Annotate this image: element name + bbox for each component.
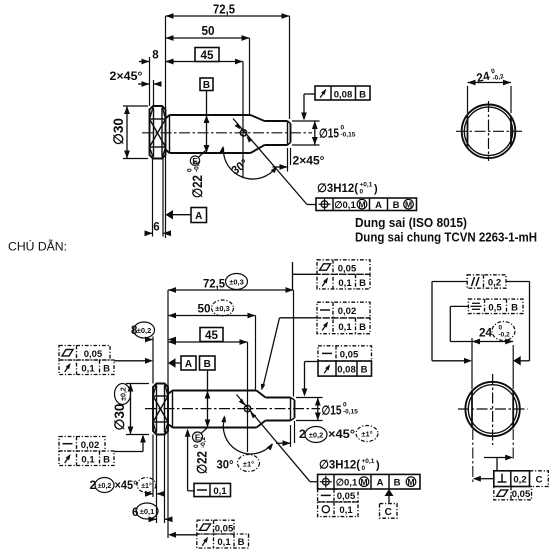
svg-text:30°: 30°	[217, 458, 234, 472]
svg-text:∅0,1: ∅0,1	[336, 478, 358, 489]
svg-text:A: A	[377, 478, 384, 489]
svg-text:0,1: 0,1	[338, 322, 352, 333]
svg-text:-0,15: -0,15	[341, 132, 356, 139]
svg-text:C: C	[385, 507, 392, 518]
svg-text:±1°: ±1°	[361, 430, 372, 439]
svg-text:B: B	[238, 537, 245, 548]
svg-text:B: B	[103, 364, 110, 375]
svg-text:72,5: 72,5	[203, 277, 225, 291]
svg-text:Dung sai (ISO 8015): Dung sai (ISO 8015)	[355, 215, 467, 230]
svg-text:B: B	[361, 365, 368, 376]
svg-text:∅15: ∅15	[322, 404, 342, 418]
svg-text:0,05: 0,05	[338, 263, 357, 274]
svg-text:0: 0	[187, 168, 194, 172]
svg-text:±0,3: ±0,3	[229, 278, 244, 287]
svg-text:72,5: 72,5	[213, 3, 235, 17]
svg-text:0,5: 0,5	[488, 302, 502, 313]
svg-text:B: B	[359, 278, 366, 289]
svg-text:0,05: 0,05	[512, 489, 531, 500]
svg-text:B: B	[511, 302, 518, 313]
svg-text:6: 6	[153, 222, 159, 234]
svg-text:2×45°: 2×45°	[293, 156, 325, 168]
svg-text:M: M	[358, 199, 365, 209]
svg-text:∅15: ∅15	[319, 127, 339, 141]
svg-text:6: 6	[132, 507, 138, 519]
svg-text:24: 24	[479, 326, 492, 340]
svg-text:A: A	[375, 200, 382, 211]
svg-text:B: B	[359, 90, 366, 101]
svg-text:B: B	[203, 80, 210, 91]
svg-text:±0,2: ±0,2	[309, 431, 324, 440]
svg-text:): )	[376, 460, 380, 472]
svg-text:B: B	[204, 359, 211, 370]
svg-text:±0,2: ±0,2	[98, 483, 112, 490]
svg-text:Dung sai chung TCVN 2263-1-mH: Dung sai chung TCVN 2263-1-mH	[355, 230, 537, 245]
svg-text:∅30: ∅30	[112, 404, 127, 431]
svg-text:0,05: 0,05	[84, 349, 103, 360]
svg-text:∅3H12(: ∅3H12(	[319, 458, 360, 472]
svg-text:C: C	[536, 475, 543, 486]
svg-text:50: 50	[198, 302, 211, 316]
svg-text:8: 8	[152, 50, 159, 62]
svg-text:B: B	[393, 200, 400, 211]
svg-text:×45°: ×45°	[115, 478, 138, 492]
svg-text:∅22: ∅22	[195, 451, 210, 474]
svg-text:±1°: ±1°	[243, 460, 254, 469]
svg-text:0: 0	[362, 465, 366, 472]
svg-text:0,1: 0,1	[81, 364, 95, 375]
svg-text:0: 0	[193, 444, 200, 448]
svg-text:45: 45	[205, 328, 218, 342]
svg-text:+0,1: +0,1	[360, 182, 373, 189]
svg-text:0,1: 0,1	[213, 486, 227, 497]
svg-text:0,2: 0,2	[513, 475, 526, 486]
svg-text:A: A	[185, 359, 192, 370]
svg-text:50: 50	[202, 24, 215, 38]
svg-text:0,1: 0,1	[217, 537, 231, 548]
svg-text:±1°: ±1°	[141, 482, 152, 490]
svg-text:0,2: 0,2	[488, 277, 501, 288]
svg-text:0: 0	[360, 189, 364, 196]
svg-text:0,05: 0,05	[337, 491, 356, 502]
svg-text:0,08: 0,08	[337, 365, 356, 376]
svg-text:0,02: 0,02	[338, 306, 357, 317]
svg-text:-0,2: -0,2	[499, 332, 511, 339]
svg-text:M: M	[405, 199, 412, 209]
svg-text:∅3H12(: ∅3H12(	[317, 181, 358, 195]
svg-text:0: 0	[341, 125, 345, 132]
svg-text:0,1: 0,1	[339, 505, 353, 516]
svg-text:B: B	[103, 455, 110, 466]
svg-text:0: 0	[343, 402, 347, 409]
svg-text:0,1: 0,1	[338, 278, 352, 289]
svg-text:±0,1: ±0,1	[140, 507, 155, 516]
svg-text:∅30: ∅30	[111, 118, 126, 145]
svg-text:0: 0	[499, 325, 503, 332]
svg-text:∅0,1: ∅0,1	[334, 200, 356, 211]
svg-text:45: 45	[201, 48, 214, 62]
svg-text:CHÚ DẪN:: CHÚ DẪN:	[8, 239, 67, 254]
svg-text:0,02: 0,02	[81, 440, 100, 451]
svg-text:0,08: 0,08	[334, 90, 353, 101]
svg-text:±0,3: ±0,3	[215, 304, 230, 313]
svg-text:-0,15: -0,15	[343, 409, 358, 416]
svg-text:+0,1: +0,1	[362, 458, 375, 465]
svg-text:-0,2: -0,2	[200, 436, 207, 448]
svg-text:±0,2: ±0,2	[121, 387, 128, 401]
svg-text:M: M	[360, 477, 367, 487]
svg-text:2×45°: 2×45°	[110, 71, 143, 83]
svg-text:0,05: 0,05	[215, 523, 234, 534]
svg-text:0,05: 0,05	[340, 350, 359, 361]
svg-text:-0,2: -0,2	[194, 160, 201, 172]
svg-text:B: B	[359, 322, 366, 333]
svg-text:±0,2: ±0,2	[137, 326, 152, 335]
svg-text:×45°: ×45°	[328, 427, 355, 441]
svg-text:B: B	[394, 478, 401, 489]
svg-text:): )	[374, 183, 378, 195]
svg-text:A: A	[195, 211, 202, 222]
svg-text:M: M	[407, 477, 414, 487]
svg-text:0,1: 0,1	[81, 455, 95, 466]
svg-text:∅22: ∅22	[190, 175, 205, 198]
